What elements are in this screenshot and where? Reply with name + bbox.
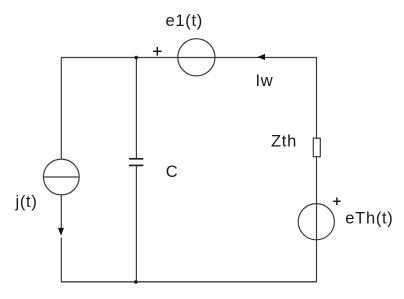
wire bottom (61, 281, 316, 283)
svg-text:j(t): j(t) (15, 193, 38, 211)
wire top (node between e1 and capacitor/right branch) (61, 57, 317, 59)
voltage source U e1 (circle on top wire) (178, 39, 215, 76)
junction node dot bottom (capacitor to bottom wire) (134, 280, 138, 284)
current direction arrow of source j (pointing down) (58, 228, 64, 236)
voltage source eTh (circle on right wire) (298, 204, 334, 240)
wire middle branch lower (135, 165, 137, 282)
wire right upper (to Zth) (316, 58, 318, 139)
svg-text:e1(t): e1(t) (166, 12, 203, 30)
wire left lower (above arrow) (60, 195, 62, 228)
wire left upper (60, 58, 62, 160)
current arrow Iw on top wire (pointing left) (257, 54, 265, 60)
svg-text:C: C (166, 163, 179, 181)
capacitor C plates (129, 159, 143, 166)
svg-text:Zth: Zth (271, 133, 297, 151)
wire middle branch upper (to capacitor) (135, 58, 137, 159)
plus sign polarity of eTh (333, 198, 341, 206)
current source j (circle with horizontal bar) (43, 159, 79, 195)
wire left lower (below arrow) (60, 238, 62, 283)
junction node dot top (capacitor to top wire) (134, 56, 138, 60)
plus sign polarity of e1 (153, 47, 162, 56)
svg-text:Iw: Iw (256, 72, 274, 90)
impedance Zth (rectangle) (313, 138, 320, 157)
wire right lower (through eTh to bottom) (316, 157, 318, 283)
svg-text:eTh(t): eTh(t) (345, 209, 393, 227)
